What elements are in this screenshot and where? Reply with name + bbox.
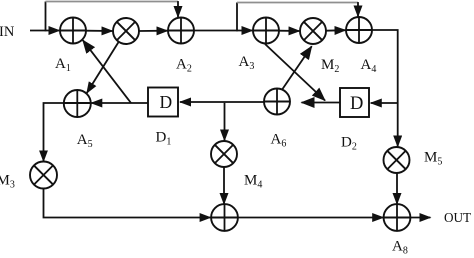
wire A3 to M2 <box>279 30 300 32</box>
wire A1 to M1 <box>86 30 113 32</box>
delay D1 <box>148 88 178 117</box>
svg-text:D: D <box>350 94 363 114</box>
adder A7 <box>211 204 238 231</box>
svg-text:D: D <box>160 92 173 112</box>
wire D2 output toward A6 <box>302 102 341 104</box>
svg-text:A2: A2 <box>176 57 192 75</box>
svg-text:A6: A6 <box>271 132 287 150</box>
delay D2 <box>340 88 369 117</box>
wire M1 to A2 <box>139 30 168 32</box>
multiplier M3 <box>30 162 57 189</box>
adder A8 <box>384 204 411 231</box>
svg-text:D1: D1 <box>156 130 172 148</box>
svg-text:A8: A8 <box>392 239 408 257</box>
multiplier M4 <box>211 141 237 167</box>
adder A3 <box>253 18 279 44</box>
wire M5 down into A8 <box>396 173 398 205</box>
node tap on IN wire <box>45 2 47 32</box>
wire diagonal M1 down to A5 <box>87 41 120 94</box>
adder A4 <box>346 17 372 43</box>
svg-text:M3: M3 <box>0 173 15 191</box>
multiplier M1 <box>113 18 139 44</box>
wire M3 output corner right to A7 <box>44 189 211 218</box>
wire D1 output into A5 <box>91 102 148 104</box>
wire branch into delay D2 <box>371 102 398 104</box>
adder A5 <box>64 90 91 117</box>
svg-text:A4: A4 <box>361 57 377 75</box>
wire down into adder A4 <box>357 2 359 16</box>
wire diagonal A6 up to M2 <box>283 46 312 89</box>
svg-text:M4: M4 <box>244 173 262 191</box>
adder A1 <box>60 18 86 44</box>
wire IN to adder A1 <box>30 30 60 32</box>
node tap on A2-A3 wire <box>236 3 238 32</box>
wire A6 output to delay D1 <box>180 101 264 103</box>
svg-text:M5: M5 <box>424 150 442 168</box>
svg-text:A1: A1 <box>55 56 71 74</box>
adder A2 <box>168 18 194 44</box>
wire down into adder A2 <box>177 1 179 17</box>
multiplier M5 <box>384 147 410 173</box>
wire diagonal junction up to A1 <box>83 40 131 103</box>
svg-text:A3: A3 <box>239 54 255 72</box>
wire A7 to A8 <box>238 217 383 219</box>
wire tap down into M4 <box>224 103 226 141</box>
svg-text:D2: D2 <box>341 135 357 153</box>
wire A8 to OUT <box>410 217 430 219</box>
adder A6 <box>264 89 290 115</box>
wire A2 to A3 <box>194 30 253 32</box>
wire M4 down into A7 <box>223 167 225 204</box>
wire feedforward top 2 <box>237 2 358 4</box>
svg-text:M2: M2 <box>321 57 339 75</box>
wire feedforward top 1 <box>46 1 179 3</box>
wire diagonal A3 down to junction <box>265 44 325 101</box>
svg-text:IN: IN <box>0 24 15 40</box>
svg-text:A5: A5 <box>77 132 93 150</box>
wire A4 output corner down <box>372 30 398 147</box>
multiplier M2 <box>300 18 326 44</box>
wire M2 to A4 <box>326 29 346 32</box>
svg-text:OUT: OUT <box>444 210 471 225</box>
wire A5 output corner down to M3 <box>44 103 65 161</box>
